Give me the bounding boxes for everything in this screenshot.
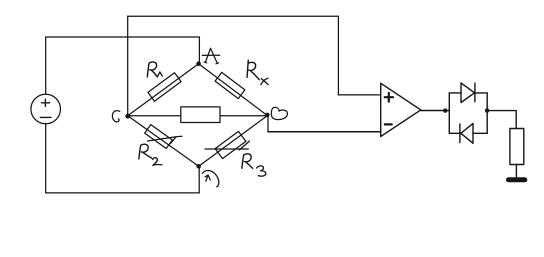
wire from node C up [127,16,129,116]
wire bridge arm C-D [128,116,199,167]
node C label [112,111,119,122]
wire diode box top side [449,92,487,94]
R2 variable arrow [148,136,183,143]
node A [196,61,201,66]
wire up into node D [198,166,200,193]
wire output to load [487,111,516,129]
wire down to op-amp level [337,16,339,95]
wire into op-amp - input [268,131,381,133]
resistor R1 body [148,73,181,101]
op-amp U1 [381,83,421,136]
resistor R2 body [145,125,173,149]
bridge output resistor RG body [181,107,220,123]
node B label [271,107,287,119]
wire bottom horizontal [46,192,200,194]
node D [196,164,201,169]
node D arrow mark [202,170,218,186]
op-amp - input symbol [385,123,392,125]
wire load resistor to ground [515,165,517,178]
label Rx [247,60,259,79]
label R1 [147,62,157,77]
label R2 [139,144,152,159]
junction dot right of diode pair [485,108,489,112]
wire bridge middle C-B [128,115,268,117]
node B [265,113,270,118]
label R3 [242,154,253,169]
resistor Rx body [215,72,245,98]
load resistor RL body [510,129,524,165]
diode D2 (pointing left) [460,123,473,143]
R3 variable arrow [205,141,250,150]
node C [125,114,130,119]
wire from node B down [267,116,269,132]
node A label [202,48,219,64]
wire diode box bottom side [449,132,487,134]
label Rx subscript [261,78,268,85]
resistor R3 body [215,131,246,158]
wire top loop horizontal [128,15,339,17]
junction dot left of diode pair [443,108,447,112]
wire bridge arm C-A [128,64,199,116]
wire from V1 bottom down [45,124,47,193]
wire bridge arm D-B [199,116,268,167]
wire diode box left vertical [448,93,450,133]
label R3 subscript [257,166,266,176]
voltage source V1 [31,94,61,124]
ground [509,177,525,182]
wire bridge arm A-B [199,64,268,116]
wire into op-amp + input [338,94,380,96]
op-amp + input symbol [385,93,393,102]
wire diode box right vertical [486,93,488,133]
wire from V1 top up [45,37,47,94]
label R2 subscript [153,158,162,166]
diode D1 (pointing right) [461,83,475,103]
wire top-left horizontal to node A branch [46,36,200,38]
wire down into node A [198,37,200,64]
label R1 subscript [157,72,162,77]
wire op-amp output [421,110,450,112]
